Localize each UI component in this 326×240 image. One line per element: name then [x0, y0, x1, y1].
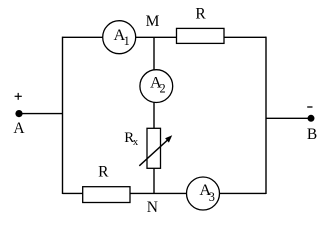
- resistor R (bottom): [83, 163, 130, 202]
- wire A2 to rheostat Rx: [153, 103, 155, 129]
- wire bottom resistor to bottom-left corner: [63, 192, 83, 194]
- wire top-left segment: [63, 36, 105, 38]
- ammeter A3: [187, 177, 220, 210]
- Rx value label: [124, 130, 139, 148]
- svg-text:R: R: [195, 6, 206, 23]
- wire bottom-right segment: [220, 192, 267, 194]
- wire terminal B to right side: [266, 117, 311, 119]
- rheostat Rx (variable resistor): [147, 128, 161, 168]
- svg-text:2: 2: [160, 82, 166, 96]
- svg-text:N: N: [147, 199, 158, 216]
- svg-text:3: 3: [209, 190, 215, 204]
- rheostat arrow: [139, 135, 172, 166]
- svg-text:M: M: [146, 13, 160, 30]
- svg-text:x: x: [133, 137, 139, 148]
- ammeter A1: [103, 21, 136, 54]
- wire node M down to A2: [153, 37, 155, 70]
- wire A3 to bottom resistor (through node N): [130, 192, 187, 194]
- wire terminal A to left side: [19, 113, 63, 115]
- wire Rx to node N: [153, 168, 155, 193]
- resistor R (top): [177, 6, 225, 44]
- terminal node B (dot): [308, 115, 315, 122]
- svg-text:B: B: [307, 126, 317, 143]
- wire right vertical: [265, 37, 267, 194]
- wire A1 to resistor R (through node M): [136, 36, 177, 38]
- wire left vertical: [62, 37, 64, 194]
- plus sign: [15, 93, 22, 100]
- terminal node A (dot): [15, 110, 22, 117]
- svg-text:R: R: [98, 163, 109, 180]
- minus sign: [307, 106, 312, 108]
- svg-text:A: A: [13, 120, 25, 137]
- ammeter A2: [140, 70, 173, 103]
- wire resistor R to top-right corner: [224, 36, 266, 38]
- svg-text:1: 1: [124, 34, 130, 48]
